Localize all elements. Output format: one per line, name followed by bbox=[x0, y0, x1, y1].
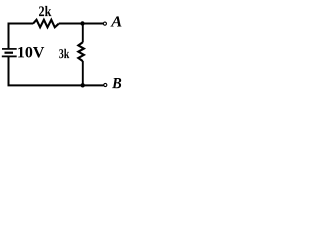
terminal B open circle bbox=[104, 83, 107, 86]
value label 2k bbox=[39, 6, 51, 16]
resistor R1 2k horizontal zigzag bbox=[33, 20, 59, 28]
value label 3k bbox=[59, 49, 69, 59]
battery V1 short thick middle plate bbox=[5, 52, 14, 54]
node junction bottom bbox=[81, 83, 85, 87]
resistor R2 3k vertical zigzag bbox=[78, 42, 84, 61]
wire: branch from 3k resistor down to bottom node bbox=[82, 61, 84, 85]
battery V1 long bottom plate bbox=[2, 55, 17, 57]
node label B bbox=[112, 78, 121, 88]
terminal A open circle bbox=[103, 22, 106, 25]
wire: branch down from top node to 3k resistor bbox=[82, 24, 84, 43]
value label 10V bbox=[18, 47, 44, 58]
wire: top wire from 2k resistor to terminal A bbox=[59, 23, 103, 25]
battery V1 long top plate bbox=[2, 48, 17, 50]
wire: left vertical top segment and top wire to 2k resistor bbox=[9, 24, 34, 49]
wire: left vertical bottom segment and bottom wire to terminal B bbox=[9, 57, 104, 86]
node label A bbox=[110, 16, 121, 26]
node junction top bbox=[80, 21, 84, 25]
